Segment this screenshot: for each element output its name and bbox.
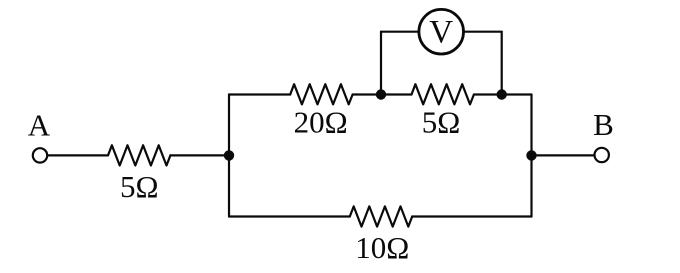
wire A to R1 bbox=[48, 154, 109, 156]
node E junction dot bbox=[497, 89, 507, 99]
wire R4 to bottom-right corner bbox=[412, 215, 531, 217]
svg-text:5Ω: 5Ω bbox=[422, 105, 461, 140]
right vertical wire bbox=[530, 95, 532, 217]
wire R2 to node D bbox=[353, 93, 381, 95]
wire node E to top-right corner bbox=[502, 93, 532, 95]
terminal B circle bbox=[595, 148, 609, 162]
wire node F to terminal B bbox=[532, 154, 595, 156]
resistor R2 20ohm zigzag bbox=[290, 84, 352, 104]
voltmeter U1 circle bbox=[419, 9, 464, 54]
node D junction dot bbox=[376, 89, 386, 99]
left vertical wire bbox=[228, 95, 230, 217]
voltmeter stub right bbox=[501, 32, 503, 95]
wire top-left to R2 bbox=[229, 93, 290, 95]
svg-text:B: B bbox=[593, 107, 614, 142]
svg-text:V: V bbox=[429, 15, 453, 51]
svg-text:10Ω: 10Ω bbox=[355, 230, 409, 265]
voltmeter wire left bbox=[381, 31, 419, 33]
wire bottom-left to R4 bbox=[229, 215, 350, 217]
wire R1 to node C bbox=[170, 154, 229, 156]
resistor R1 5ohm zigzag bbox=[108, 145, 170, 165]
wire node D to R3 bbox=[381, 93, 412, 95]
voltmeter wire right bbox=[464, 31, 502, 33]
terminal A circle bbox=[33, 148, 47, 162]
node C junction dot bbox=[224, 150, 234, 160]
svg-text:5Ω: 5Ω bbox=[120, 169, 159, 204]
wire R3 to node E bbox=[474, 93, 502, 95]
svg-text:20Ω: 20Ω bbox=[294, 105, 348, 140]
resistor R3 5ohm zigzag bbox=[412, 84, 474, 104]
voltmeter stub left bbox=[380, 32, 382, 95]
resistor R4 10ohm zigzag bbox=[350, 206, 412, 226]
node F junction dot bbox=[526, 150, 536, 160]
svg-text:A: A bbox=[28, 108, 51, 143]
